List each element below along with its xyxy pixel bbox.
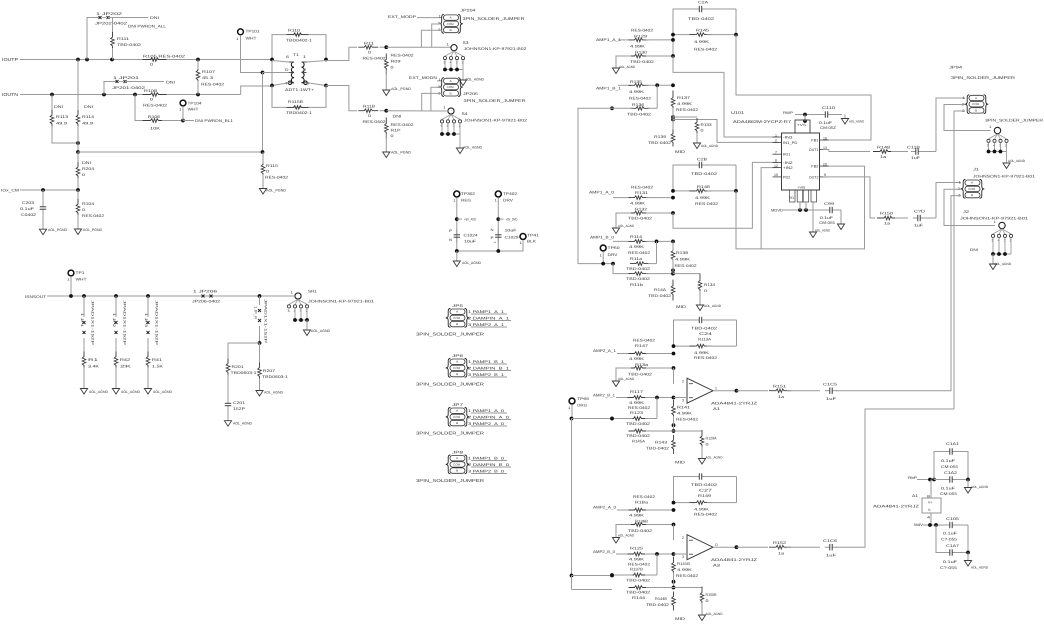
label C11D <box>914 210 925 214</box>
net AMP2_B_0 <box>593 550 615 554</box>
label R132 <box>635 208 647 212</box>
svg-text:3: 3 <box>682 399 684 403</box>
svg-text:1: 1 <box>236 37 239 41</box>
svg-text:A1: A1 <box>713 407 720 411</box>
junction <box>114 294 118 298</box>
pin1 J2 <box>994 220 997 224</box>
svg-text:O: O <box>715 543 718 547</box>
label R137 fp <box>676 108 698 112</box>
svg-text:3PIN_SOLDER_JUMPER: 3PIN_SOLDER_JUMPER <box>416 382 484 387</box>
resistor R137B <box>628 573 648 577</box>
svg-text:R150: R150 <box>880 212 893 216</box>
resistor R145 <box>690 33 712 37</box>
svg-text:152P: 152P <box>233 407 246 411</box>
svg-text:C1C6: C1C6 <box>823 539 837 543</box>
pin 2 <box>285 68 289 72</box>
svg-text:1 PAMP1_B_1: 1 PAMP1_B_1 <box>468 360 504 364</box>
ground <box>453 251 460 267</box>
op-amp U101 <box>782 120 820 202</box>
wire IOUTN <box>20 94 147 96</box>
label R151 value <box>778 395 785 399</box>
label DNI R114 <box>84 105 93 109</box>
svg-text:R11b: R11b <box>630 283 643 287</box>
svg-text:0: 0 <box>150 98 153 102</box>
svg-text:JP6: JP6 <box>452 354 463 358</box>
svg-text:JP94: JP94 <box>949 66 962 70</box>
label net <box>506 218 518 222</box>
label AOL_PGND <box>391 87 411 91</box>
label MdV <box>914 523 924 527</box>
svg-text:AOL_AGND: AOL_AGND <box>233 422 252 426</box>
wire <box>922 151 936 153</box>
label R109 <box>391 60 401 64</box>
wire out <box>713 546 737 548</box>
wire <box>612 574 633 576</box>
svg-text:MID: MID <box>675 150 685 154</box>
svg-text:R107: R107 <box>202 70 215 74</box>
wire <box>571 576 573 590</box>
label R146 fp <box>695 202 718 206</box>
resistor R152 <box>769 545 791 549</box>
svg-text:DNI: DNI <box>54 105 63 109</box>
svg-text:0: 0 <box>266 170 269 174</box>
wire <box>646 509 674 511</box>
wire <box>645 553 674 555</box>
label R138 fp <box>675 264 697 268</box>
label value <box>694 507 710 511</box>
label +VS <box>797 123 807 127</box>
wire <box>272 83 289 86</box>
svg-text:2: 2 <box>303 68 306 72</box>
svg-text:ADA4841-2YRJZ: ADA4841-2YRJZ <box>711 402 758 406</box>
label JP7 fp <box>416 431 484 436</box>
svg-text:3PIN_SOLDER_JUMPER: 3PIN_SOLDER_JUMPER <box>416 431 484 436</box>
label C110 <box>822 106 835 110</box>
label R129 fp <box>631 29 653 33</box>
wire to S3 <box>386 46 451 48</box>
label AGND <box>994 262 1012 266</box>
svg-text:R41: R41 <box>152 358 162 362</box>
label JP202 footprint <box>95 22 127 26</box>
label DNI <box>970 248 978 252</box>
label C105 <box>946 517 959 521</box>
label R111 <box>117 37 129 41</box>
svg-text:R152: R152 <box>773 541 786 545</box>
svg-text:REG: REG <box>461 199 471 203</box>
svg-text:V+: V+ <box>928 501 932 505</box>
junction <box>261 150 265 154</box>
ground <box>456 148 463 154</box>
label fp <box>633 339 655 343</box>
junction <box>671 118 675 122</box>
svg-text:AOL_AGND: AOL_AGND <box>704 304 722 308</box>
junction <box>270 58 274 62</box>
svg-text:C?-055: C?-055 <box>941 538 957 542</box>
resistor R141 <box>672 400 676 421</box>
label JP204 fp <box>463 16 525 21</box>
svg-text:AOL_AGND: AOL_AGND <box>463 146 482 150</box>
label C1C6 value <box>826 554 837 558</box>
label fp <box>633 495 655 499</box>
svg-text:4.99K: 4.99K <box>695 196 711 200</box>
junction <box>496 249 500 253</box>
wire <box>673 34 695 36</box>
svg-text:AMP2_A_0: AMP2_A_0 <box>593 506 616 510</box>
svg-text:1: 1 <box>959 181 962 185</box>
svg-text:JP205: JP205 <box>463 92 478 96</box>
label fp <box>676 574 698 578</box>
label C27 <box>699 489 712 493</box>
label R104 <box>82 202 94 206</box>
resistor R114A <box>629 240 649 244</box>
capacitor C1A7 <box>945 549 957 555</box>
pin1 <box>439 78 442 82</box>
svg-text:1: 1 <box>439 78 442 82</box>
label N <box>449 238 453 242</box>
junction <box>671 240 675 244</box>
wire OUT1 <box>823 149 829 151</box>
junction <box>928 478 932 482</box>
junction <box>655 240 659 244</box>
svg-text:R151: R151 <box>773 385 786 389</box>
junction <box>1003 252 1007 256</box>
wire out B <box>737 546 769 548</box>
junction <box>934 523 938 527</box>
label R131 <box>635 191 648 195</box>
label R136B <box>635 520 649 524</box>
ground <box>383 70 390 96</box>
resistor R1 <box>82 352 86 371</box>
solder jumper JP6 <box>446 359 470 378</box>
wire R113 bottom <box>52 126 78 143</box>
wire <box>456 197 458 251</box>
capacitor C27 <box>694 473 706 479</box>
svg-text:4.99K: 4.99K <box>630 45 646 49</box>
wire <box>259 343 261 365</box>
svg-text:1: 1 <box>495 199 498 203</box>
capacitor C1C6 <box>825 544 837 550</box>
svg-text:0: 0 <box>704 289 707 293</box>
svg-text:DNI PWRDN_BL1: DNI PWRDN_BL1 <box>195 119 233 123</box>
resistor R117 <box>628 396 648 400</box>
svg-text:0.1uF: 0.1uF <box>20 207 35 211</box>
svg-text:TBD0603-1: TBD0603-1 <box>231 371 257 375</box>
svg-text:0.1uF: 0.1uF <box>941 487 956 491</box>
net label EXT_MODP <box>388 15 417 19</box>
wire JP205 pin2 <box>431 87 442 111</box>
wire <box>674 553 688 555</box>
label R111B <box>363 105 376 109</box>
label J1 part <box>973 175 1035 179</box>
svg-text:1: 1 <box>994 220 997 224</box>
junction <box>928 523 932 527</box>
label C1C6 <box>823 539 837 543</box>
label R11a fp <box>626 267 650 271</box>
label R201 value <box>231 371 257 375</box>
wire <box>616 553 631 555</box>
wire TP104 <box>182 106 184 120</box>
label R112 value <box>391 134 394 138</box>
svg-text:JP202-0402: JP202-0402 <box>95 22 127 26</box>
label J2 <box>963 210 969 214</box>
svg-text:10uF: 10uF <box>505 229 518 233</box>
wire JP204 pin3 <box>421 30 442 47</box>
svg-text:COM: COM <box>447 22 455 26</box>
svg-text:1 PAMP1_A_0: 1 PAMP1_A_0 <box>468 409 504 413</box>
svg-text:AMP1_A_1: AMP1_A_1 <box>596 38 621 42</box>
label fp <box>940 492 957 496</box>
svg-text:RES-0402: RES-0402 <box>633 495 655 499</box>
label R109 fp <box>391 54 414 58</box>
label R41 <box>152 358 162 362</box>
svg-text:RES-0402: RES-0402 <box>695 202 718 206</box>
wire <box>707 190 736 192</box>
label MID <box>675 150 685 154</box>
label C24 <box>699 332 712 336</box>
svg-text:4.99K: 4.99K <box>694 40 710 44</box>
svg-text:C?D: C?D <box>914 210 925 214</box>
wire <box>674 587 703 589</box>
wire <box>646 367 674 369</box>
pin1 <box>959 181 962 185</box>
label R1 value <box>88 365 100 369</box>
label JP202 <box>96 12 122 16</box>
label value <box>706 443 709 447</box>
label C99 fp <box>819 221 835 225</box>
resistor R131 <box>629 196 649 200</box>
svg-text:AOL_AGND: AOL_AGND <box>971 485 989 489</box>
svg-text:C1029: C1029 <box>505 236 519 240</box>
svg-text:COM: COM <box>453 316 461 320</box>
junction <box>258 294 262 298</box>
svg-text:S4: S4 <box>462 112 468 116</box>
svg-text:1: 1 <box>520 241 523 245</box>
svg-text:+: + <box>494 241 497 245</box>
wire net 2 <box>471 466 511 468</box>
label AGND <box>706 456 724 460</box>
label +VB <box>797 186 805 190</box>
wire <box>736 477 738 503</box>
svg-text:AOL_AGND: AOL_AGND <box>462 261 481 265</box>
svg-text:RES-0402: RES-0402 <box>676 108 698 112</box>
net label EXT_MODN <box>409 76 437 80</box>
svg-text:DNI: DNI <box>82 161 91 165</box>
pin1 <box>439 15 442 19</box>
wire <box>707 34 736 36</box>
wires S1 fanout <box>989 143 1007 163</box>
junction <box>601 262 605 266</box>
label R104 value <box>82 208 85 212</box>
svg-text:AOL_PGND: AOL_PGND <box>83 228 102 232</box>
label R150B <box>706 593 717 597</box>
net 3 <box>468 373 504 377</box>
svg-text:4.99K: 4.99K <box>629 90 645 94</box>
label fp <box>626 591 650 595</box>
jumper JP201 <box>116 80 127 83</box>
testpoint TP302 <box>454 191 460 197</box>
label JP205 <box>463 92 478 96</box>
ground <box>612 536 619 544</box>
label TP104 pin <box>179 108 182 112</box>
connector S4 <box>448 108 454 114</box>
label R109 value <box>391 66 394 70</box>
capacitor C11B <box>911 148 923 154</box>
svg-text:TP101: TP101 <box>246 30 260 34</box>
wire <box>656 554 658 575</box>
ground <box>74 215 81 235</box>
wire out A <box>737 390 769 392</box>
svg-text:TBD-0402: TBD-0402 <box>648 141 671 145</box>
label R129A <box>706 437 717 441</box>
resistor R113A <box>690 344 712 348</box>
svg-text:3PIN_SOLDER_JUMPER: 3PIN_SOLDER_JUMPER <box>416 478 484 483</box>
wire <box>648 107 657 109</box>
svg-text:RES-0402: RES-0402 <box>265 176 288 180</box>
label JP201 footprint <box>112 86 145 90</box>
junction <box>671 196 675 200</box>
label value <box>943 532 958 536</box>
svg-text:R144B: R144B <box>655 597 667 601</box>
junction <box>672 366 676 370</box>
svg-text:AMP2_B_0: AMP2_B_0 <box>593 550 615 554</box>
wire EXT_MODP <box>417 17 442 19</box>
label fp <box>628 406 650 410</box>
label R42 value <box>120 365 132 369</box>
svg-text:R144: R144 <box>632 596 645 600</box>
svg-text:2: 2 <box>775 139 777 143</box>
svg-text:RES-0402: RES-0402 <box>629 97 651 101</box>
svg-text:AOL_AGND: AOL_AGND <box>618 534 635 538</box>
svg-text:TBD-0402: TBD-0402 <box>626 422 650 426</box>
wire <box>795 114 822 116</box>
svg-text:R113A: R113A <box>698 338 712 342</box>
label P <box>491 236 495 240</box>
label JP5 <box>452 304 463 308</box>
resistor R145A <box>629 429 649 433</box>
svg-text:AOL_AGND: AOL_AGND <box>706 456 724 460</box>
label A1 part <box>711 402 758 406</box>
svg-text:R1Ba: R1Ba <box>635 501 649 505</box>
label value <box>629 558 645 562</box>
junction <box>443 68 447 72</box>
wire <box>923 524 946 526</box>
svg-text:A: A <box>975 97 977 100</box>
label R141B <box>677 562 691 566</box>
junction <box>999 150 1003 154</box>
wire JP202 to DNI <box>108 17 148 19</box>
svg-text:TBD-0402: TBD-0402 <box>630 60 654 64</box>
label R104 fp <box>82 214 104 218</box>
pin 5 <box>303 68 306 72</box>
wire stub <box>457 218 462 220</box>
svg-text:AOL_AGND: AOL_AGND <box>815 229 831 233</box>
wire <box>707 345 737 347</box>
capacitor C203 <box>40 202 46 214</box>
wire +IN1 <box>673 120 779 143</box>
svg-text:R114: R114 <box>630 235 642 239</box>
junction <box>570 417 574 421</box>
svg-text:TBD-0402: TBD-0402 <box>627 113 651 117</box>
wire OUT2 <box>823 177 875 218</box>
label R112 <box>391 129 402 133</box>
capacitor C127 <box>694 162 706 168</box>
svg-text:49.9: 49.9 <box>82 122 93 126</box>
svg-text:R132: R132 <box>635 208 647 212</box>
label R105 <box>143 55 185 59</box>
pin <box>495 199 498 203</box>
label R207 <box>263 369 275 373</box>
label TP104 <box>188 102 202 106</box>
svg-text:A: A <box>456 311 458 314</box>
wire loop C27 <box>674 477 696 503</box>
label fp <box>691 327 717 331</box>
label R151 <box>773 385 786 389</box>
svg-text:B: B <box>450 29 452 32</box>
svg-text:0: 0 <box>706 599 709 603</box>
svg-text:JP8: JP8 <box>452 451 463 455</box>
label R132 fp <box>628 217 652 221</box>
svg-text:TBD-0402: TBD-0402 <box>626 434 650 438</box>
label C1024 <box>464 234 478 238</box>
wire <box>924 217 936 219</box>
svg-text:WHT: WHT <box>188 108 200 112</box>
wire EXT_MODN <box>437 80 442 82</box>
svg-text:RES-0402: RES-0402 <box>676 574 698 578</box>
label R111A fp <box>363 57 386 61</box>
wire <box>77 190 79 202</box>
net AMP1_A_1 <box>596 38 621 42</box>
svg-text:R114: R114 <box>82 115 94 119</box>
wire <box>656 85 658 108</box>
wire <box>656 398 658 419</box>
label fp <box>941 465 958 469</box>
junction <box>196 58 200 62</box>
svg-text:B: B <box>450 92 452 95</box>
pin2 <box>438 85 441 89</box>
svg-text:TBD0402-1: TBD0402-1 <box>286 111 312 115</box>
svg-text:4.99K: 4.99K <box>629 357 645 361</box>
svg-text:AOL_PGND: AOL_PGND <box>391 151 411 155</box>
svg-text:A: A <box>456 410 458 413</box>
label R131 value <box>630 202 646 206</box>
wire loop B <box>673 165 695 191</box>
label R204 value <box>82 173 85 177</box>
wire JP204 pin2 <box>432 24 442 47</box>
ground <box>459 80 466 86</box>
svg-text:4.99K: 4.99K <box>694 351 710 355</box>
svg-text:AOL_AGND: AOL_AGND <box>89 390 108 394</box>
svg-text:C24: C24 <box>699 332 712 336</box>
svg-text:JPAD1X1-152P: JPAD1X1-152P <box>123 300 127 346</box>
svg-text:10K: 10K <box>150 127 161 131</box>
label JP204 <box>461 9 476 13</box>
wire <box>646 39 673 41</box>
label AOL_AGND <box>153 390 172 394</box>
junction <box>672 508 676 512</box>
svg-text:12: 12 <box>774 164 778 168</box>
svg-text:+IN2: +IN2 <box>783 166 793 170</box>
junction <box>305 318 309 322</box>
label DRV <box>503 199 514 203</box>
svg-text:1: 1 <box>291 291 294 295</box>
svg-text:ISNSOUT: ISNSOUT <box>25 295 47 299</box>
resistor R111A <box>358 45 378 49</box>
wires S4 fanout <box>442 123 460 148</box>
svg-text:4.99K: 4.99K <box>677 102 693 106</box>
junction <box>258 341 262 345</box>
junction <box>76 150 80 154</box>
svg-text:TP66: TP66 <box>577 397 589 401</box>
